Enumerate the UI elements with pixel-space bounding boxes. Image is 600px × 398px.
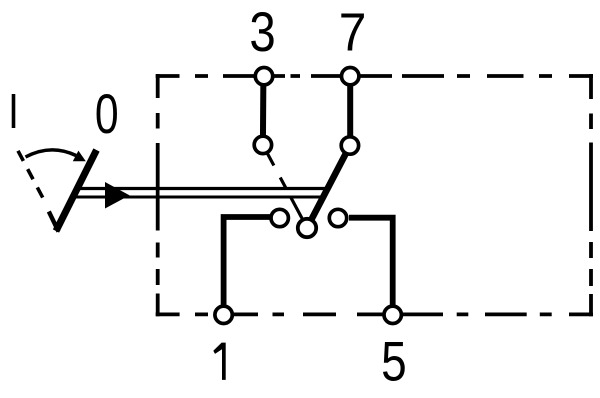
label I — [12, 94, 16, 128]
node: blade pivot — [298, 219, 316, 237]
housing outline left side (dash-dot) — [156, 74, 160, 316]
actuator shaft upper line — [74, 187, 328, 190]
node: left throw contact — [271, 209, 288, 226]
node: terminal 1 — [215, 306, 232, 323]
node: terminal 3 — [255, 68, 272, 85]
wire: L-shape to terminal 5 — [349, 218, 393, 315]
lever position 0 (solid) — [56, 150, 97, 231]
motion arc arrowhead — [73, 151, 86, 162]
lever position I final segment — [49, 212, 59, 232]
svg-text:0: 0 — [95, 82, 119, 145]
node: terminal 5 — [384, 306, 401, 323]
wire: L-shape to terminal 1 — [224, 217, 270, 315]
node: terminal 7 — [342, 68, 359, 85]
svg-text:5: 5 — [381, 330, 407, 392]
housing outline right side (dash-dot) — [589, 74, 593, 316]
actuator shaft lower line — [70, 196, 323, 199]
node: lower contact 7 — [341, 137, 358, 154]
motion arc arrow — [26, 150, 77, 157]
node: lower contact 3 — [254, 136, 271, 153]
label 1 — [213, 343, 225, 380]
housing outline top side (dash-dot) — [156, 74, 593, 78]
actuator arrow on shaft — [105, 182, 130, 209]
housing outline bottom side (dash-dot) — [156, 312, 593, 316]
shaft interior mask — [160, 190, 327, 195]
lever position I (dashed) — [18, 151, 48, 208]
svg-text:7: 7 — [339, 2, 367, 62]
node: right throw contact — [329, 209, 346, 226]
wire: terminal 7 stem — [347, 76, 353, 145]
svg-text:3: 3 — [249, 0, 275, 62]
wire: terminal 3 stem — [260, 76, 267, 145]
switch blade: lower contact 7 to pivot — [307, 146, 350, 229]
open contact path (dashed) from lower contact 3 to pivot — [267, 153, 302, 219]
